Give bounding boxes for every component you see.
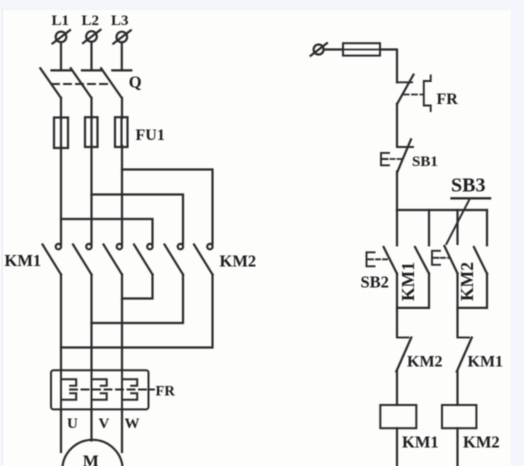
coil KM1 <box>380 405 416 428</box>
wire KM2 contact2 crossover to phase2 <box>92 275 184 324</box>
FR actuator dashed link <box>404 94 424 96</box>
wire FR to motor U <box>60 409 62 452</box>
interlock contact KM1 (NC) <box>457 338 472 372</box>
wire KM2 contact3 crossover to phase1 <box>61 275 213 348</box>
wire KM1 contact2 to FR <box>90 275 92 371</box>
wire FR contact to SB1 <box>396 104 398 147</box>
wire KM2 contact1 crossover to phase3 <box>122 275 153 299</box>
fuse FU1 pole 2 <box>85 117 98 147</box>
svg-text:FR: FR <box>437 91 459 108</box>
contact KM1 aux (NO) <box>415 247 429 274</box>
FR heater element 2 <box>92 370 107 409</box>
svg-text:SB2: SB2 <box>361 273 389 292</box>
wire drop KM1 aux <box>428 210 430 245</box>
wire phase2 to KM2 pole2 <box>92 195 184 244</box>
wire phase1 down <box>60 147 62 244</box>
SB3 actuator E <box>432 251 440 265</box>
wire phase3 to KM2 pole3 <box>122 170 213 244</box>
fuse FU1 pole 3 <box>115 117 128 147</box>
wire phase3 down <box>121 146 123 244</box>
contactor KM1 main contact 1 <box>43 244 62 275</box>
svg-text:L2: L2 <box>82 13 100 29</box>
wire FR to motor V <box>90 409 92 440</box>
wire L1 to switch <box>60 42 62 70</box>
thermal relay FR box <box>51 370 149 409</box>
pushbutton SB2 (NO) <box>384 247 397 274</box>
wire L3 to switch <box>121 42 123 70</box>
wire terminal to fuse <box>324 48 344 50</box>
wire SB2 top <box>396 210 398 245</box>
wire phase2 down <box>90 146 92 244</box>
wire fuse to corner and down <box>380 50 397 83</box>
fuse FU1 pole 1 <box>54 118 68 149</box>
svg-text:M: M <box>83 452 99 466</box>
SB2 actuator E <box>367 252 375 266</box>
wire switch to fuses <box>61 98 122 119</box>
SB1 actuator E <box>381 153 389 165</box>
contact KM2 aux (NO) <box>474 247 487 274</box>
SB2 actuator dashed link <box>376 258 389 260</box>
wire phase1 to KM2 pole1 <box>61 219 153 244</box>
wire SB2 to interlock <box>396 274 398 337</box>
svg-text:U: U <box>67 416 78 432</box>
interlock contact KM2 (NC) <box>396 338 411 372</box>
wire KM2 aux bottom <box>458 274 488 308</box>
svg-text:KM2: KM2 <box>457 262 477 301</box>
control terminal <box>311 43 327 56</box>
FR actuator bracket <box>424 76 431 112</box>
switch Q linkage dashed <box>52 83 112 85</box>
svg-text:Q: Q <box>129 73 142 92</box>
wire L2 to switch <box>90 42 92 71</box>
wire to coil KM2 <box>456 372 458 406</box>
svg-text:KM1: KM1 <box>5 251 42 270</box>
terminal L2 <box>83 30 101 43</box>
wire KM1 aux bottom <box>397 274 429 308</box>
SB1 actuator dashed link <box>391 158 403 160</box>
terminal L3 <box>113 30 131 43</box>
wire FR to motor W <box>121 409 123 452</box>
terminal L1 <box>53 30 71 43</box>
svg-text:SB1: SB1 <box>412 154 438 170</box>
wire coil KM1 down <box>396 428 398 466</box>
wire coil KM2 down <box>456 428 458 466</box>
svg-text:L1: L1 <box>52 13 70 29</box>
switch Q pole 2 <box>71 68 101 98</box>
switch Q pole 3 <box>101 68 131 98</box>
wire SB1 to rail <box>396 172 398 211</box>
wire KM1 contact1 to FR <box>60 275 62 371</box>
contactor KM1 main contact 3 <box>104 244 123 275</box>
rail node <box>397 209 487 211</box>
FR linkage dashed <box>70 389 154 391</box>
pushbutton SB3 (NO) <box>444 246 457 273</box>
motor M circle <box>62 440 122 466</box>
wire to coil KM1 <box>396 372 398 406</box>
contactor KM2 main contact 3 <box>194 244 213 275</box>
svg-text:SB3: SB3 <box>451 175 485 197</box>
svg-text:L3: L3 <box>111 13 129 29</box>
left faint border line <box>1 10 3 466</box>
relay contact FR (NC) <box>397 75 414 104</box>
svg-text:FU1: FU1 <box>136 127 165 144</box>
contactor KM2 main contact 2 <box>165 244 184 275</box>
svg-text:W: W <box>125 416 140 432</box>
svg-text:KM1: KM1 <box>402 433 439 452</box>
SB3 leader line <box>446 199 469 244</box>
wire drop KM2 aux <box>486 210 488 245</box>
FR heater element 1 <box>61 370 76 409</box>
svg-text:KM1: KM1 <box>398 262 418 301</box>
SB3 label underline <box>452 197 491 199</box>
svg-text:KM2: KM2 <box>463 433 500 452</box>
wire SB3 to interlock <box>456 273 458 336</box>
svg-text:FR: FR <box>156 384 176 400</box>
switch Q pole 1 <box>40 68 70 98</box>
svg-text:KM1: KM1 <box>468 354 504 371</box>
background top strip <box>0 0 524 10</box>
svg-text:KM2: KM2 <box>407 354 443 371</box>
svg-text:V: V <box>99 416 110 432</box>
wire drop SB3 <box>456 210 458 244</box>
coil KM2 <box>442 405 476 428</box>
control fuse <box>343 43 380 55</box>
contactor KM1 main contact 2 <box>73 244 92 275</box>
wire KM1 contact3 to FR <box>121 275 123 371</box>
SB3 actuator dashed link <box>441 257 450 259</box>
contactor KM2 main contact 1 <box>134 244 153 275</box>
pushbutton SB1 (NC) <box>397 139 413 171</box>
svg-text:KM2: KM2 <box>220 252 257 271</box>
background right strip <box>511 0 524 466</box>
FR heater element 3 <box>122 370 137 409</box>
